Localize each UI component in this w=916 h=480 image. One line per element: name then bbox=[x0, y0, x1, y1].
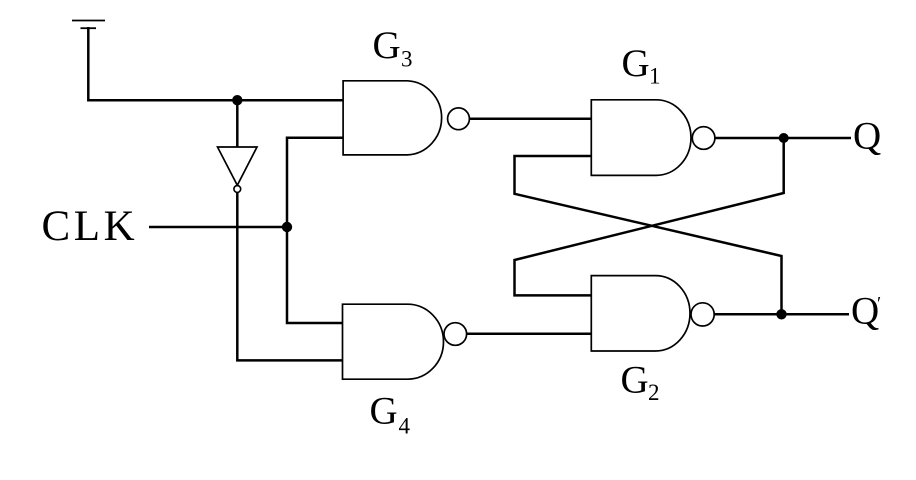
wire: G2 output to Q' terminal bbox=[714, 313, 849, 316]
inverter output bubble bbox=[234, 186, 241, 193]
inverter U1 (triangle) bbox=[218, 147, 258, 185]
svg-text:CLK: CLK bbox=[42, 203, 139, 250]
wire: CLK input bbox=[149, 226, 287, 229]
node: Q junction bbox=[779, 133, 789, 143]
svg-text:G: G bbox=[622, 42, 650, 85]
nand gate G3 bbox=[343, 81, 469, 155]
wire: G3 output to G1 input A bbox=[469, 118, 591, 121]
node: CLK junction bbox=[282, 222, 292, 232]
svg-text:3: 3 bbox=[401, 47, 413, 72]
label G2 bbox=[621, 359, 660, 405]
nand gate G1 bbox=[591, 100, 715, 176]
wire: rail stem down and across to G3 input A bbox=[88, 27, 343, 100]
svg-text:Q: Q bbox=[851, 290, 879, 333]
svg-text:G: G bbox=[621, 359, 649, 402]
wire: G1 output to Q terminal bbox=[715, 137, 851, 140]
power rail symbol (two-bar ground/antenna) bbox=[72, 21, 105, 29]
label G4 bbox=[370, 389, 411, 438]
wire: Q' feedback up, diagonal to left, up to G1 input B bbox=[515, 156, 782, 314]
nand gate G2 bbox=[591, 276, 714, 351]
svg-text:G: G bbox=[373, 24, 401, 67]
nand gate G4 bbox=[343, 304, 467, 379]
svg-text:G: G bbox=[370, 389, 398, 432]
label Q' bbox=[851, 290, 881, 333]
wire: Q feedback down, diagonal to left, down to G2 input A bbox=[515, 138, 784, 295]
node: Q' junction bbox=[776, 309, 786, 319]
svg-text:Q: Q bbox=[853, 115, 881, 158]
label G3 bbox=[373, 24, 413, 72]
wire: G4 output to G2 input B bbox=[467, 333, 592, 336]
wire: CLK junction down and across to G4 input A bbox=[287, 227, 343, 323]
node: tap junction on rail wire bbox=[232, 95, 242, 105]
svg-text:1: 1 bbox=[649, 64, 661, 89]
label G1 bbox=[622, 42, 661, 89]
svg-text:′: ′ bbox=[877, 294, 881, 315]
wire: CLK junction up and across to G3 input B bbox=[287, 138, 344, 227]
svg-text:4: 4 bbox=[399, 414, 411, 439]
wire: inverter output down and across to G4 input B bbox=[237, 193, 343, 361]
wire: tap down to inverter input bbox=[236, 100, 239, 146]
svg-text:2: 2 bbox=[648, 380, 660, 405]
